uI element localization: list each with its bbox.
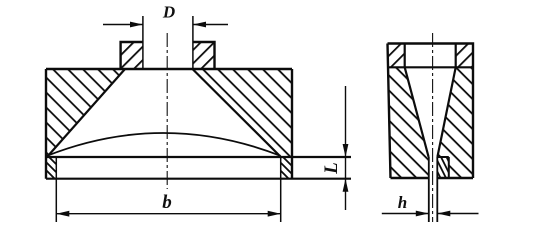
boss hole left edge: [404, 44, 406, 68]
right view bottom line left part: [391, 177, 429, 179]
boss top-right hatched corner: [456, 44, 473, 68]
body right wall hatched: [193, 69, 293, 157]
body bottom line extended right for L: [46, 178, 351, 180]
small step hatched block: [429, 155, 460, 183]
right view bottom line right part: [437, 177, 473, 179]
dome arc: [47, 133, 281, 156]
boss hole right edge: [455, 44, 457, 68]
arrow b right: [268, 211, 281, 217]
left funnel slant: [47, 69, 125, 157]
arrow h left: [416, 211, 429, 217]
body outline rectangle: [46, 69, 292, 179]
arrow h right: [437, 211, 450, 217]
arrow L top: [343, 144, 349, 157]
right funnel slant: [193, 69, 281, 157]
svg-text:D: D: [162, 3, 175, 22]
svg-text:h: h: [398, 193, 407, 212]
dimension D line left part: [103, 24, 143, 26]
svg-text:b: b: [162, 192, 172, 213]
strip top line extended right for L: [46, 156, 351, 158]
slot right vertical + h extension: [436, 157, 438, 222]
dimension D extension left: [142, 16, 144, 69]
body left wall hatched: [46, 69, 125, 157]
boss left hatched block: [121, 42, 143, 69]
bottom right hatched block: [274, 148, 304, 202]
arrow D right: [193, 22, 206, 28]
taper right line: [437, 67, 455, 157]
centerline right view: [432, 33, 434, 222]
boss outline: [121, 42, 215, 69]
right view left wall hatched: [388, 67, 429, 178]
dimension h line left part: [382, 213, 429, 215]
arrow D left: [130, 22, 143, 28]
taper left line: [405, 67, 429, 157]
step top line: [437, 156, 449, 158]
centerline left view: [166, 33, 168, 189]
bottom left hatched block: [40, 148, 70, 202]
boss top-left hatched corner: [388, 44, 405, 68]
slot left inner vertical + b extension: [55, 157, 57, 222]
right view right wall hatched: [437, 67, 473, 178]
dimension D extension right: [192, 16, 194, 69]
arrow b left: [56, 211, 69, 217]
step right vertical: [448, 157, 450, 178]
svg-text:L: L: [321, 162, 342, 175]
boss/body interface line: [388, 66, 473, 68]
boss right hatched block: [193, 42, 215, 69]
dimension h line right part: [437, 213, 478, 215]
slot left vertical + h extension: [428, 157, 430, 222]
slot right inner vertical + b extension: [280, 157, 282, 222]
dimension L line: [345, 86, 347, 210]
dimension D line right part: [193, 24, 228, 26]
right view outline: [388, 44, 474, 179]
arrow L bottom: [343, 179, 349, 192]
dimension b line: [56, 213, 280, 215]
